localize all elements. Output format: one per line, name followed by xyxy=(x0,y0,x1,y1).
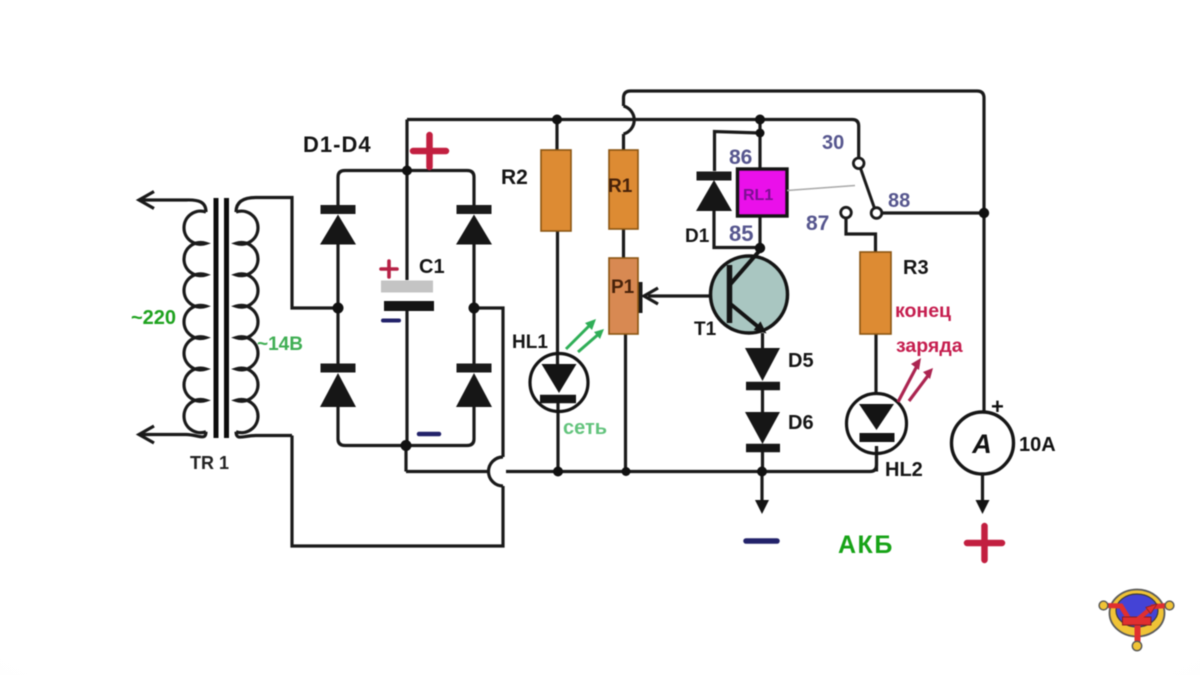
svg-text:TR 1: TR 1 xyxy=(190,453,229,473)
LED HL1 xyxy=(530,354,588,412)
svg-text:87: 87 xyxy=(806,212,829,235)
svg-text:RL1: RL1 xyxy=(743,187,773,204)
diode D bridge upper-left triangle xyxy=(320,215,356,245)
wire bottom rail xyxy=(506,446,877,472)
label minus C1 xyxy=(383,319,399,323)
svg-text:HL1: HL1 xyxy=(512,332,548,353)
relay contact lever xyxy=(861,168,875,208)
wire D1 parallel top xyxy=(715,132,761,172)
diode D1 triangle xyxy=(696,180,732,211)
node RL1 branch top xyxy=(755,115,765,125)
wire hop to R1 top xyxy=(622,134,625,150)
wire D5 to D6 xyxy=(761,390,764,412)
diode D1 cathode bar xyxy=(697,172,732,181)
svg-text:R1: R1 xyxy=(608,176,633,197)
wire top rail (R1 to ammeter branch) xyxy=(624,91,985,412)
label minus bridge bottom xyxy=(419,432,439,437)
LED HL2 xyxy=(847,394,907,454)
svg-text:D5: D5 xyxy=(788,350,814,372)
node contact 88 to right rail xyxy=(979,208,989,218)
node D6 bottom rail xyxy=(757,467,767,477)
relay contact 30 xyxy=(853,158,864,169)
svg-text:P1: P1 xyxy=(611,277,635,298)
diode D (bridge upper-right) xyxy=(457,205,492,214)
svg-text:конец: конец xyxy=(895,300,951,322)
svg-text:R3: R3 xyxy=(903,257,929,279)
node HL1 bottom rail xyxy=(553,467,563,477)
node bridge bottom xyxy=(401,440,412,451)
transformer TR1 primary winding xyxy=(184,211,206,433)
capacitor C1 wires xyxy=(405,171,408,281)
wire secondary return long bottom path xyxy=(292,436,503,547)
svg-text:сеть: сеть xyxy=(563,417,607,439)
svg-text:C1: C1 xyxy=(419,256,445,278)
HL2 light arrows xyxy=(898,364,930,402)
wire RL1 top xyxy=(758,120,761,170)
wire P1 bottom xyxy=(624,334,627,472)
arrow ammeter to battery plus xyxy=(981,474,984,501)
arrow primary top xyxy=(139,192,154,209)
wire switch 88 to right vertical xyxy=(882,211,984,214)
P1 wiper contact bar xyxy=(639,282,643,313)
HL1 light arrows xyxy=(566,323,601,352)
wire R1 to P1 xyxy=(622,229,625,258)
logo emblem bottom right xyxy=(1099,590,1174,651)
label plus C1 xyxy=(381,261,397,277)
diode D bridge lower-right triangle xyxy=(456,373,492,407)
ammeter A xyxy=(952,412,1014,474)
potentiometer P1 xyxy=(609,258,638,334)
svg-text:T1: T1 xyxy=(694,319,717,340)
P1 wiper arrowhead xyxy=(644,288,658,304)
relay coil RL1 xyxy=(738,169,788,216)
svg-text:~14В: ~14В xyxy=(257,334,303,355)
node R2 top xyxy=(552,115,562,125)
svg-text:D1-D4: D1-D4 xyxy=(303,132,372,157)
wire switch 87 to R3 xyxy=(846,218,876,252)
svg-text:88: 88 xyxy=(888,190,910,212)
wire RL1 bottom xyxy=(758,216,761,248)
wire T1 base to P1 wiper xyxy=(648,294,730,297)
transformer TR1 secondary winding xyxy=(236,211,258,433)
diode D bridge lower-left triangle xyxy=(320,373,356,407)
svg-text:10A: 10A xyxy=(1019,434,1056,456)
transformer TR1 primary top lead xyxy=(141,200,206,212)
relay contact 87 xyxy=(841,207,852,218)
node bridge top xyxy=(402,166,412,176)
wire R2 bottom to HL1 xyxy=(556,231,559,364)
resistor R3 xyxy=(860,252,891,334)
node RL1 bottom / T1 collector xyxy=(755,243,765,253)
svg-text:заряда: заряда xyxy=(896,335,963,357)
wire HL2 inside bottom xyxy=(875,446,878,472)
relay mechanical linkage xyxy=(787,186,855,191)
label minus battery xyxy=(746,538,777,544)
wire D6 to bottom rail xyxy=(761,452,764,472)
diode D (bridge lower-right) xyxy=(457,364,492,373)
label plus battery xyxy=(967,526,1002,560)
transformer TR1 primary bottom lead xyxy=(141,432,206,437)
diode D (bridge lower-left) xyxy=(321,364,356,373)
transistor T1 xyxy=(711,256,788,333)
wire hop over middle rail at R1 xyxy=(624,106,635,134)
diode D bridge upper-right triangle xyxy=(456,215,492,245)
wire D1 bottom xyxy=(714,211,760,248)
diode D6 xyxy=(745,412,780,444)
wire bridge bottom node to bottom rail xyxy=(406,446,489,472)
svg-text:85: 85 xyxy=(729,221,753,246)
capacitor C1 negative plate xyxy=(384,301,434,311)
wire secondary top lead to bridge left mid node xyxy=(236,198,333,309)
svg-text:АКБ: АКБ xyxy=(838,531,894,559)
diode D5 xyxy=(745,348,780,381)
wire R2 top xyxy=(555,120,558,151)
wire hop over bottom rail xyxy=(489,457,504,486)
resistor R2 xyxy=(541,150,571,231)
label plus rectifier output xyxy=(413,135,446,167)
node bridge left mid xyxy=(333,303,344,314)
svg-text:86: 86 xyxy=(729,146,752,169)
node bridge right mid xyxy=(469,303,480,314)
arrow battery minus xyxy=(760,472,763,502)
svg-text:+: + xyxy=(991,394,1004,419)
wire right bridge mid node to hop xyxy=(474,308,503,457)
node D1 top junction xyxy=(756,129,765,138)
capacitor C1 positive plate xyxy=(381,281,433,293)
wire R3 to HL2 xyxy=(874,334,877,394)
svg-text:~220: ~220 xyxy=(131,307,176,329)
svg-text:D1: D1 xyxy=(685,226,710,247)
resistor R1 xyxy=(609,150,638,229)
svg-text:A: A xyxy=(971,429,992,459)
wire secondary bottom lead xyxy=(236,432,292,437)
svg-text:HL2: HL2 xyxy=(885,459,923,481)
diode D (bridge upper-left) xyxy=(321,205,356,214)
transformer TR1 core xyxy=(216,198,227,438)
svg-text:D6: D6 xyxy=(788,412,814,434)
relay contact 88 xyxy=(871,208,882,219)
wire HL1 bottom xyxy=(556,403,559,472)
svg-text:30: 30 xyxy=(822,132,844,154)
bridge top rail xyxy=(338,171,474,206)
node P1 bottom rail xyxy=(622,467,631,476)
wire bridge top node up and rail to switch 30 xyxy=(407,120,859,171)
arrow primary bottom xyxy=(139,426,154,443)
svg-text:R2: R2 xyxy=(501,166,528,189)
wire T1 emitter to D5 xyxy=(761,333,764,348)
